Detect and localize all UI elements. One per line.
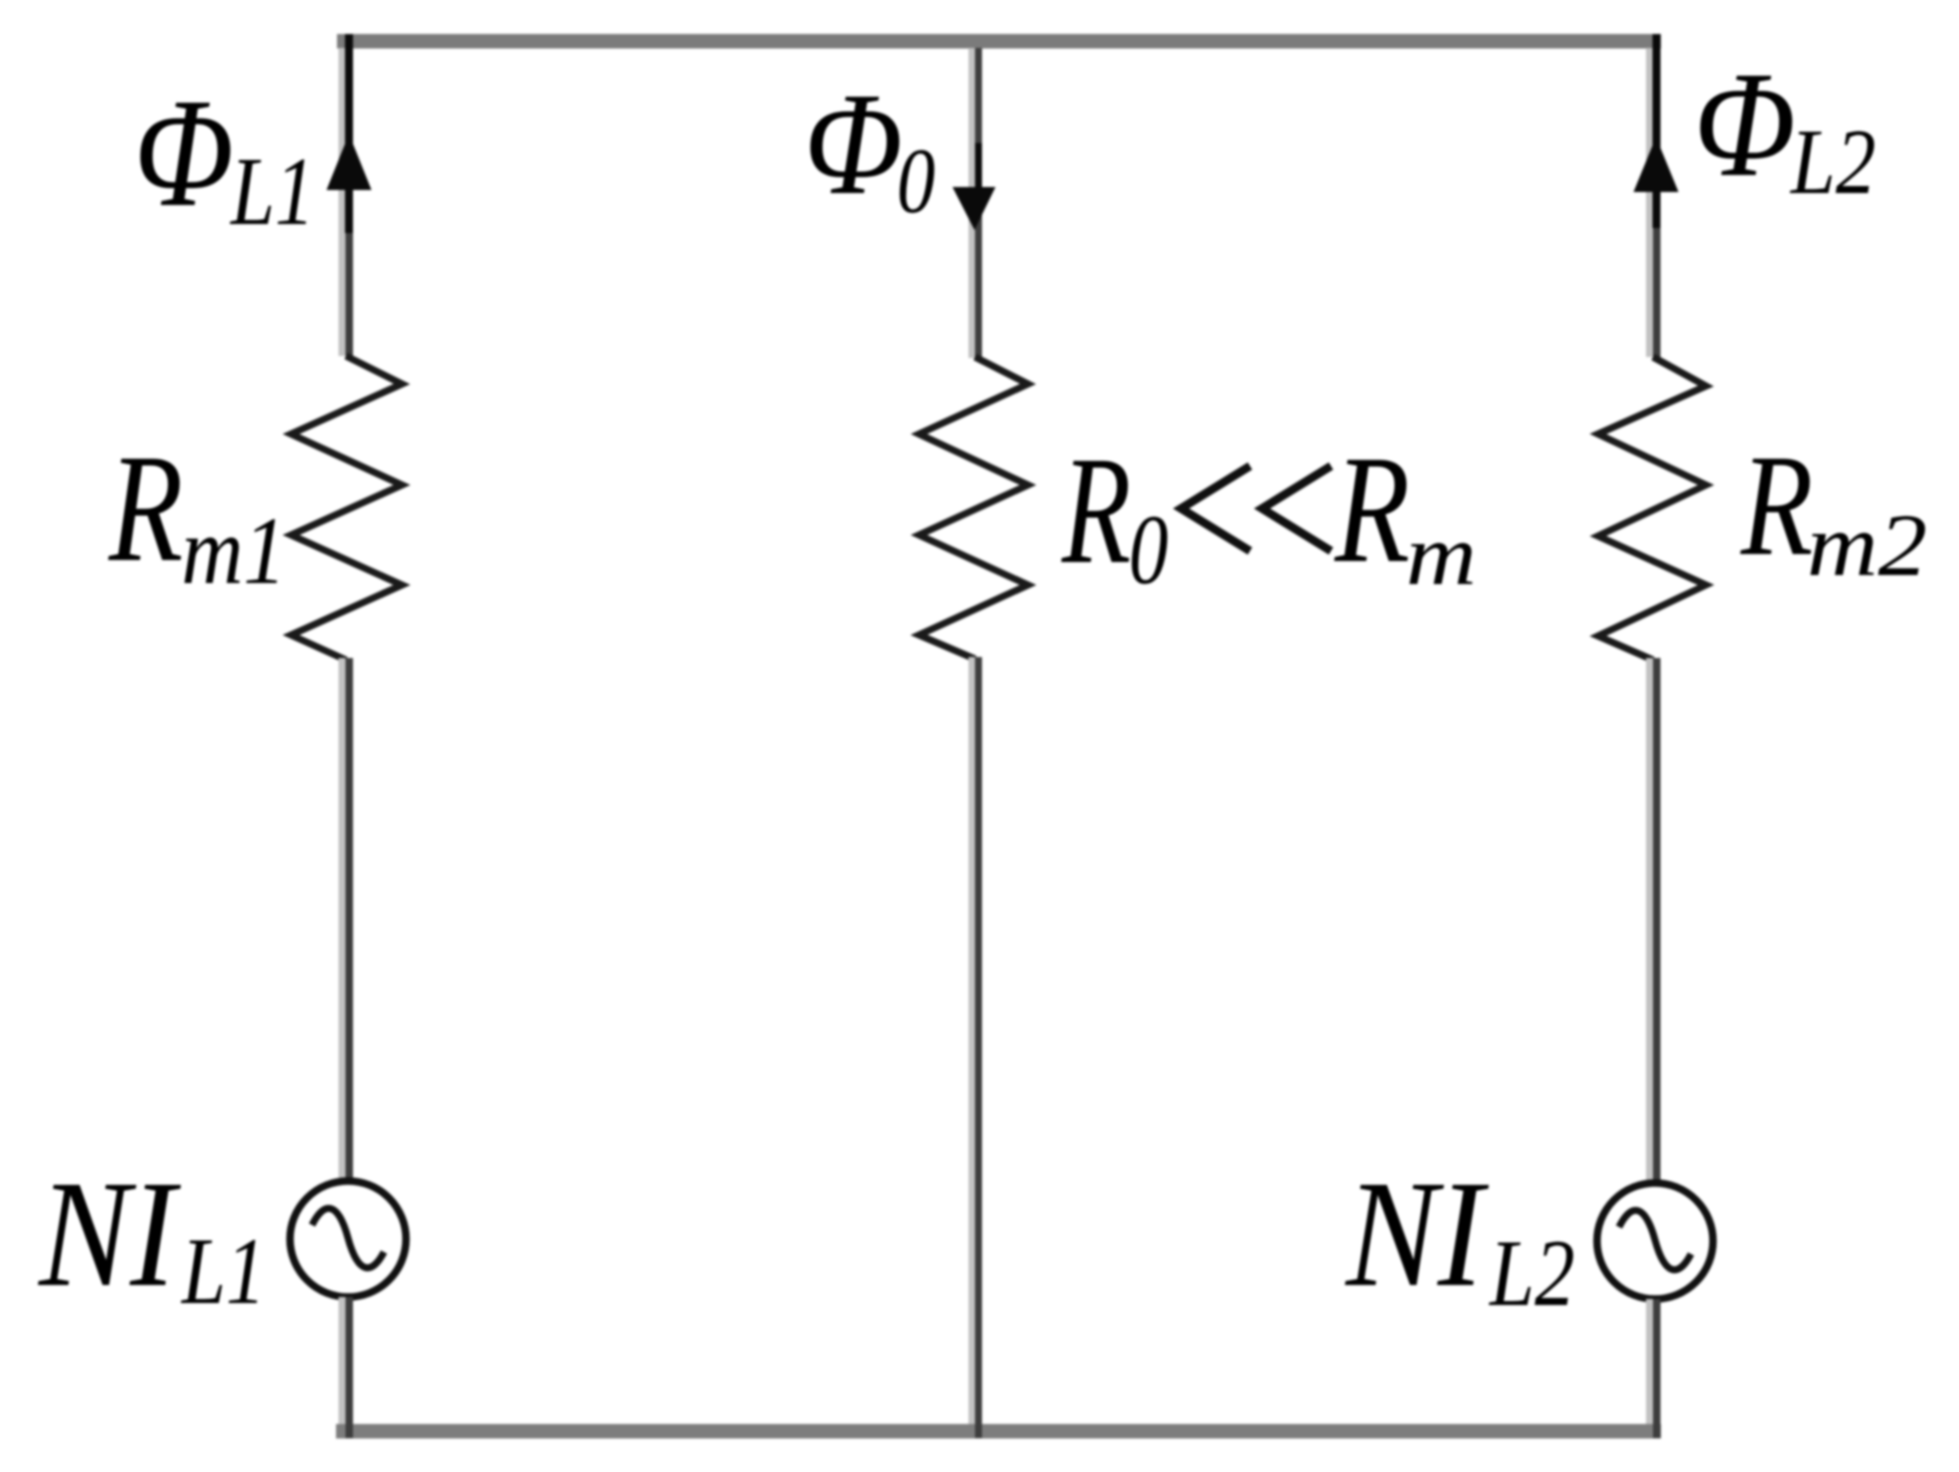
- label Rm1: [108, 423, 286, 604]
- label NI_L1: [37, 1150, 266, 1324]
- label Phi0: [804, 63, 935, 233]
- wire middle branch lower segment: [969, 657, 983, 1438]
- wire left branch upper segment: [339, 34, 354, 356]
- svg-text:0: 0: [897, 129, 935, 233]
- resistor R0: [919, 357, 1028, 659]
- svg-text:Φ: Φ: [804, 63, 903, 225]
- wire bottom bus: [336, 1424, 1661, 1439]
- wire right branch upper segment: [1646, 34, 1661, 357]
- svg-text:m2: m2: [1807, 496, 1927, 595]
- source NI_L1 (AC symbol): [290, 1181, 406, 1297]
- wire left branch lower segment: [339, 1297, 354, 1438]
- source NI_L2 (AC symbol): [1597, 1183, 1713, 1299]
- resistor Rm1: [291, 356, 402, 660]
- label R0 << Rm: [1061, 425, 1477, 605]
- flux arrow Phi0 (down): [953, 143, 996, 230]
- svg-text:R: R: [1334, 425, 1410, 595]
- svg-text:m: m: [1406, 507, 1477, 603]
- wire middle branch upper segment: [969, 48, 983, 358]
- wire right branch lower segment: [1646, 1299, 1661, 1438]
- svg-text:NI: NI: [37, 1150, 181, 1319]
- svg-text:Φ: Φ: [134, 67, 234, 239]
- svg-text:L1: L1: [229, 138, 315, 246]
- svg-text:L2: L2: [1789, 109, 1876, 213]
- svg-text:Φ: Φ: [1694, 40, 1796, 207]
- svg-text:R: R: [1061, 425, 1131, 596]
- svg-text:m1: m1: [181, 497, 286, 604]
- flux arrow PhiL2 (up): [1634, 34, 1679, 228]
- svg-text:R: R: [1740, 425, 1813, 586]
- label PhiL2: [1694, 40, 1876, 213]
- label Rm2: [1740, 425, 1927, 595]
- label PhiL1: [134, 67, 315, 246]
- flux arrow PhiL1 (up): [327, 34, 372, 233]
- wire right branch middle segment: [1646, 658, 1661, 1182]
- wire left branch middle segment: [339, 658, 354, 1182]
- svg-text:L2: L2: [1488, 1222, 1575, 1327]
- svg-text:L1: L1: [180, 1218, 266, 1323]
- label NI_L2: [1344, 1149, 1575, 1326]
- svg-text:0: 0: [1129, 495, 1169, 605]
- resistor Rm2: [1598, 357, 1706, 660]
- wire top bus: [337, 34, 1661, 49]
- svg-text:R: R: [108, 423, 183, 594]
- svg-text:NI: NI: [1344, 1149, 1490, 1318]
